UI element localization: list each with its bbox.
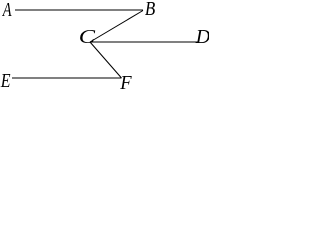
svg-text:D: D [195, 26, 209, 48]
svg-text:E: E [0, 69, 11, 90]
svg-text:F: F [119, 72, 132, 90]
svg-text:A: A [2, 0, 12, 21]
svg-text:B: B [145, 0, 155, 20]
svg-text:C: C [79, 25, 96, 47]
